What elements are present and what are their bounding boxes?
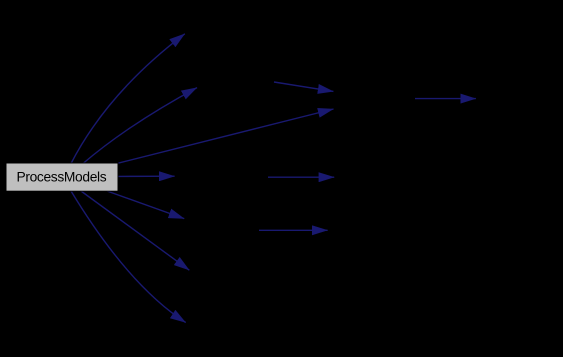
edge N3 to N4 (horizontal) — [415, 98, 476, 100]
edge ProcessModels to node N5 (horizontal) — [118, 175, 175, 177]
edge ProcessModels to node N10 (curved) — [71, 191, 186, 323]
edge N2 to N3 — [274, 82, 333, 91]
svg-text:ProcessModels: ProcessModels — [17, 169, 107, 184]
node ProcessModels — [6, 163, 118, 191]
edge N7 to N8 (horizontal) — [259, 229, 328, 231]
edge ProcessModels to node N3 (long) — [118, 109, 334, 163]
edge ProcessModels to node N2 — [83, 88, 197, 164]
edge N5 to N6 (horizontal) — [268, 176, 334, 178]
edge ProcessModels to node row1 (curved) — [71, 34, 185, 164]
edge ProcessModels to node N7 — [107, 191, 184, 219]
edge ProcessModels to node N9 — [81, 191, 189, 270]
